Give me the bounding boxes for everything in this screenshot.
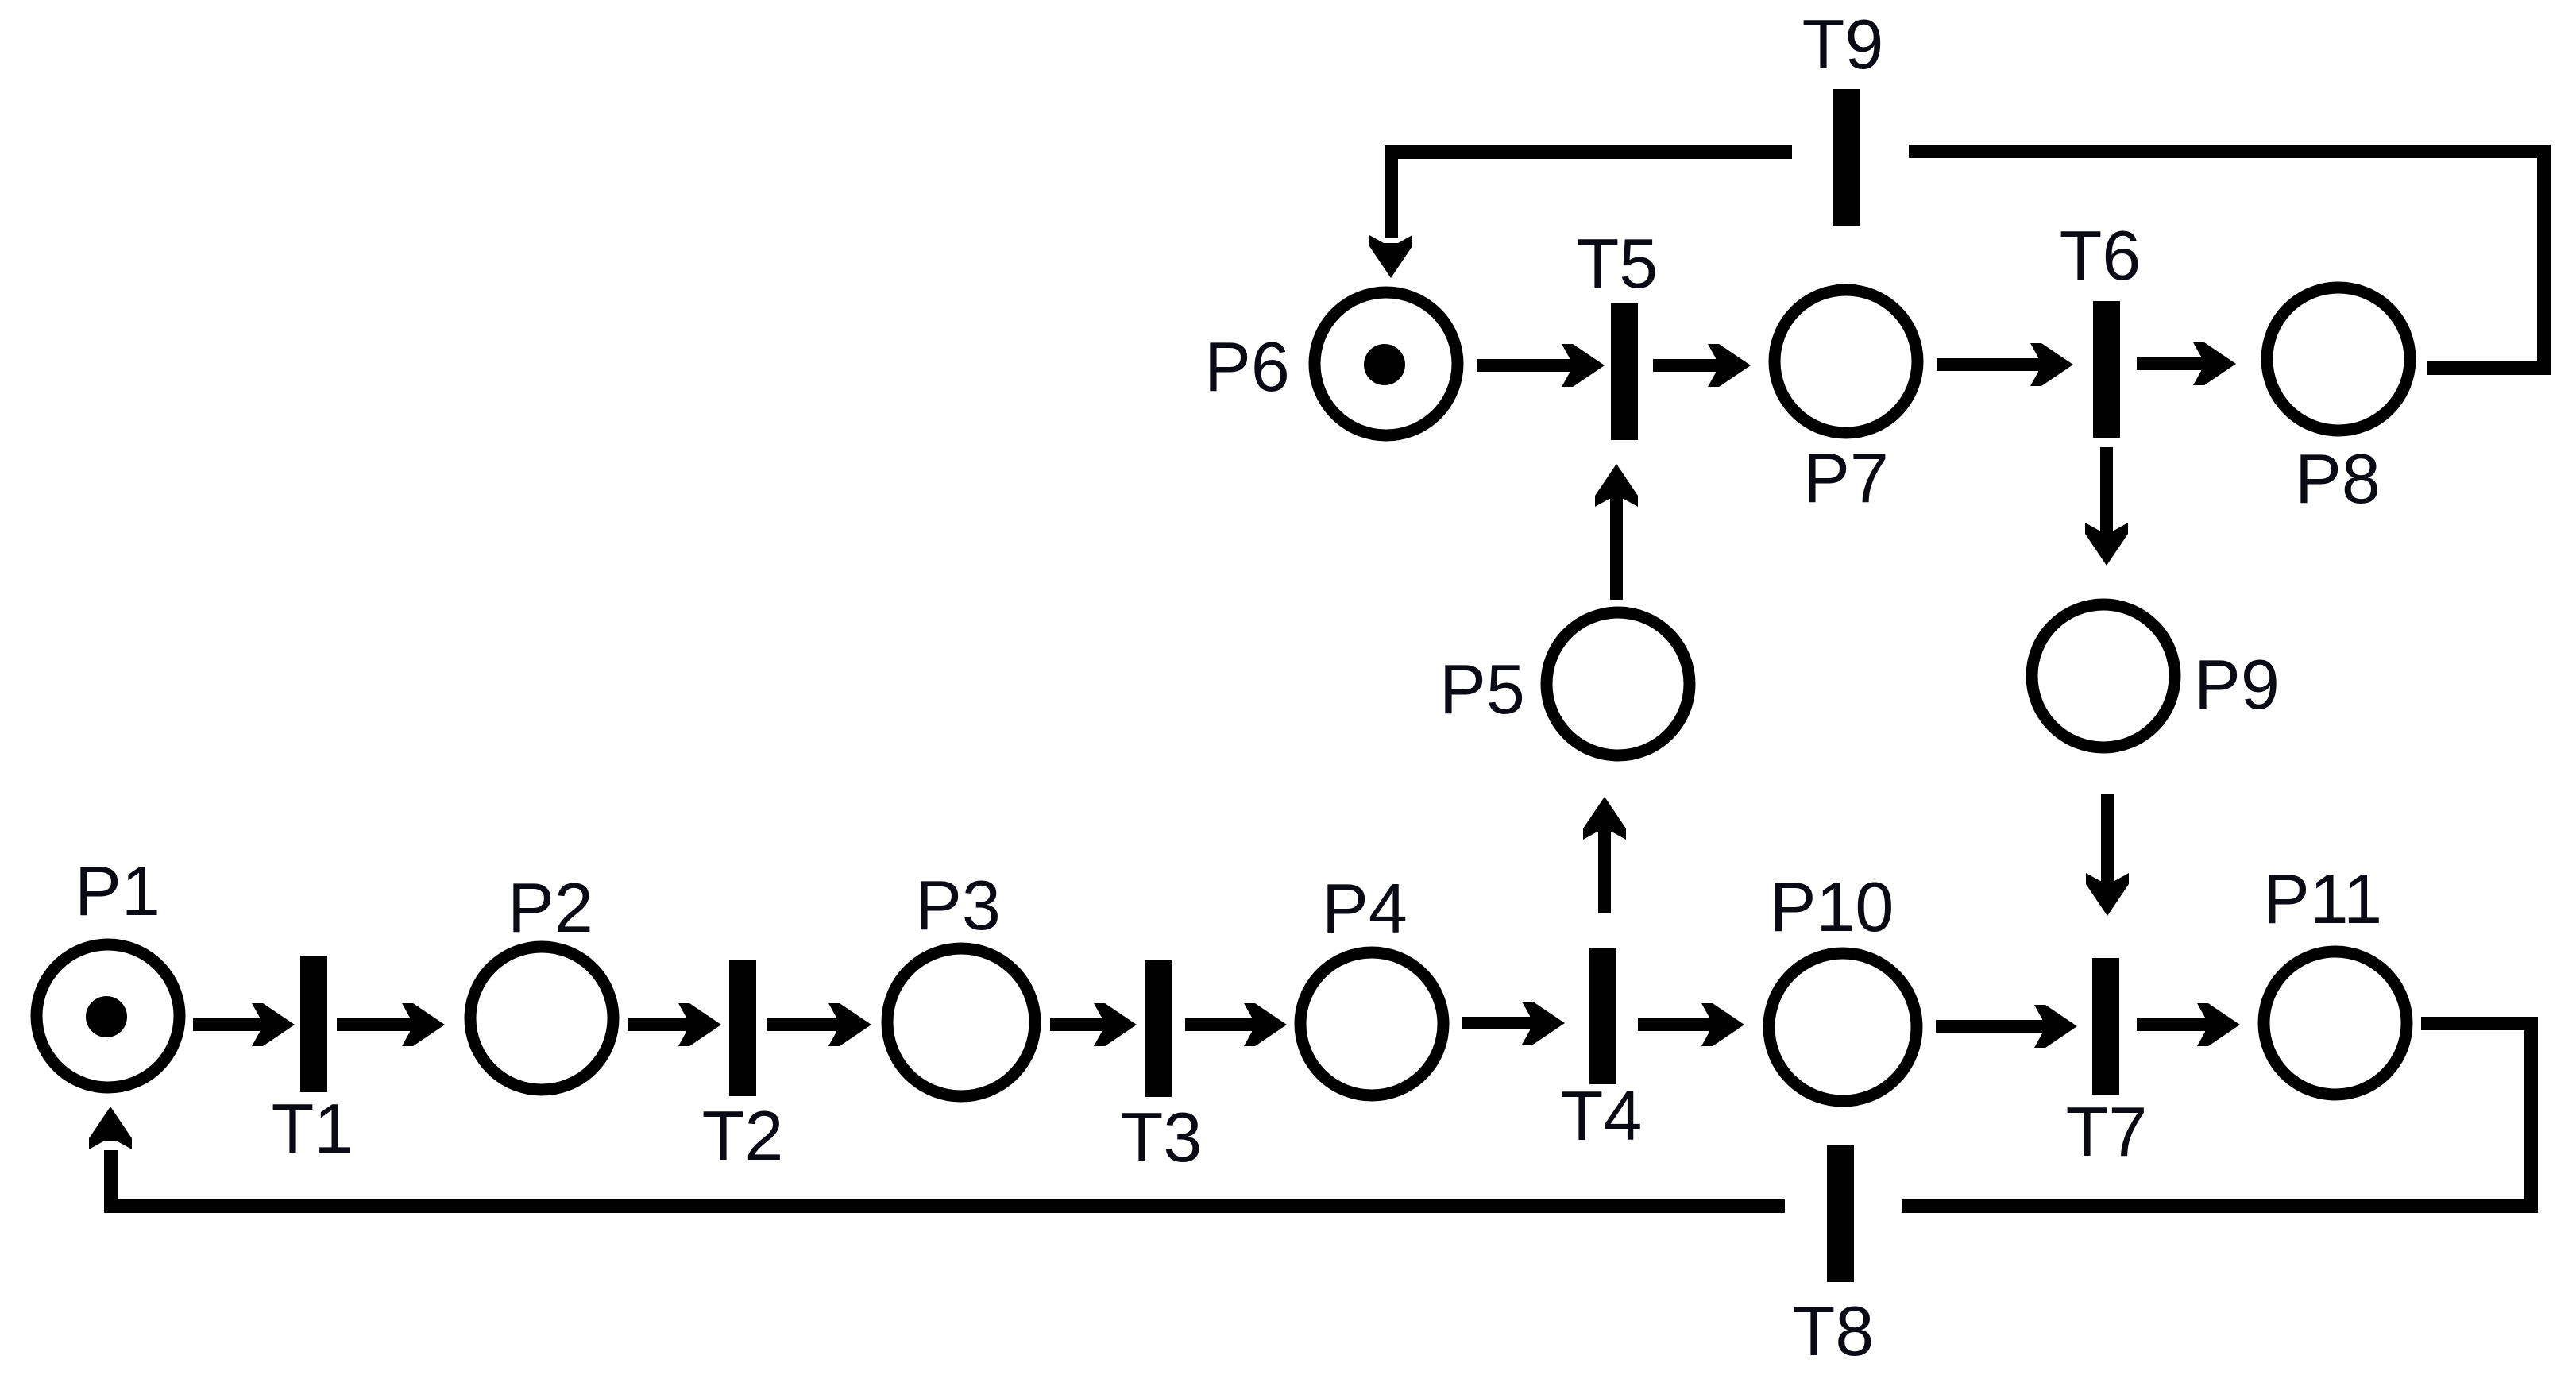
- arc P5 to T5: [1595, 464, 1638, 600]
- arc P4 to T4: [1462, 1002, 1565, 1045]
- transition T2: [729, 960, 756, 1096]
- svg-text:T9: T9: [1802, 5, 1884, 83]
- svg-text:P2: P2: [508, 868, 593, 947]
- arc T5 to P7: [1653, 344, 1751, 387]
- place P9: [2032, 604, 2175, 747]
- transition T7: [2092, 958, 2119, 1095]
- place P3: [887, 948, 1035, 1096]
- svg-text:P8: P8: [2295, 439, 2381, 518]
- arc T9 to P6 (wire with elbow and arrowhead): [1369, 145, 1792, 278]
- token in P6: [1364, 344, 1405, 385]
- arc T1 to P2: [337, 1003, 445, 1046]
- svg-text:T7: T7: [2066, 1092, 2148, 1171]
- svg-text:T3: T3: [1121, 1098, 1203, 1176]
- arc P7 to T6: [1937, 343, 2073, 386]
- arc T8 to P1 (bottom wire with up arrowhead): [89, 1107, 1785, 1213]
- arc T6 to P9: [2085, 447, 2128, 566]
- transition T9: [1833, 89, 1860, 226]
- arc T6 to P8: [2137, 342, 2236, 385]
- svg-text:P5: P5: [1439, 650, 1525, 728]
- arc P11 to T8 (wire down right side): [1902, 1017, 2538, 1213]
- svg-text:P4: P4: [1322, 869, 1408, 948]
- svg-text:P10: P10: [1770, 867, 1894, 946]
- arc P2 to T2: [628, 1003, 721, 1046]
- arc P3 to T3: [1050, 1003, 1137, 1046]
- place P4: [1300, 952, 1443, 1095]
- place P11: [2264, 952, 2407, 1095]
- arc P1 to T1: [193, 1003, 295, 1046]
- place P8: [2267, 288, 2410, 431]
- svg-text:T1: T1: [272, 1089, 353, 1168]
- transition T4: [1589, 948, 1616, 1084]
- arc T4 to P10: [1638, 1003, 1744, 1046]
- arc T7 to P11: [2137, 1003, 2240, 1046]
- place P5: [1547, 612, 1690, 755]
- svg-text:T6: T6: [2060, 216, 2142, 295]
- arc P8 to T9 (wire up right side): [1909, 145, 2551, 375]
- arc T4 to P5: [1583, 797, 1626, 913]
- svg-text:T5: T5: [1577, 224, 1659, 303]
- arc T2 to P3: [767, 1003, 871, 1046]
- svg-text:P1: P1: [75, 852, 160, 930]
- transition T8: [1827, 1145, 1854, 1282]
- svg-text:P3: P3: [915, 866, 1001, 944]
- svg-text:P6: P6: [1204, 327, 1290, 406]
- place P10: [1769, 953, 1917, 1101]
- svg-text:T8: T8: [1793, 1292, 1875, 1370]
- arc P10 to T7: [1936, 1005, 2077, 1048]
- arc P9 to T7: [2086, 794, 2129, 916]
- transition T6: [2093, 301, 2120, 438]
- svg-text:T4: T4: [1561, 1076, 1643, 1155]
- place P7: [1775, 290, 1918, 433]
- transition T3: [1145, 960, 1172, 1097]
- svg-text:T2: T2: [702, 1096, 784, 1175]
- token in P1: [86, 996, 127, 1037]
- transition T1: [300, 956, 327, 1092]
- place P2: [470, 947, 613, 1090]
- transition T5: [1611, 303, 1638, 440]
- arc T3 to P4: [1185, 1003, 1287, 1046]
- svg-text:P9: P9: [2194, 645, 2280, 724]
- place P1: [37, 944, 180, 1087]
- svg-text:P7: P7: [1803, 438, 1889, 517]
- arc P6 to T5: [1477, 344, 1605, 387]
- place P6: [1315, 292, 1458, 435]
- svg-text:P11: P11: [2263, 859, 2382, 938]
